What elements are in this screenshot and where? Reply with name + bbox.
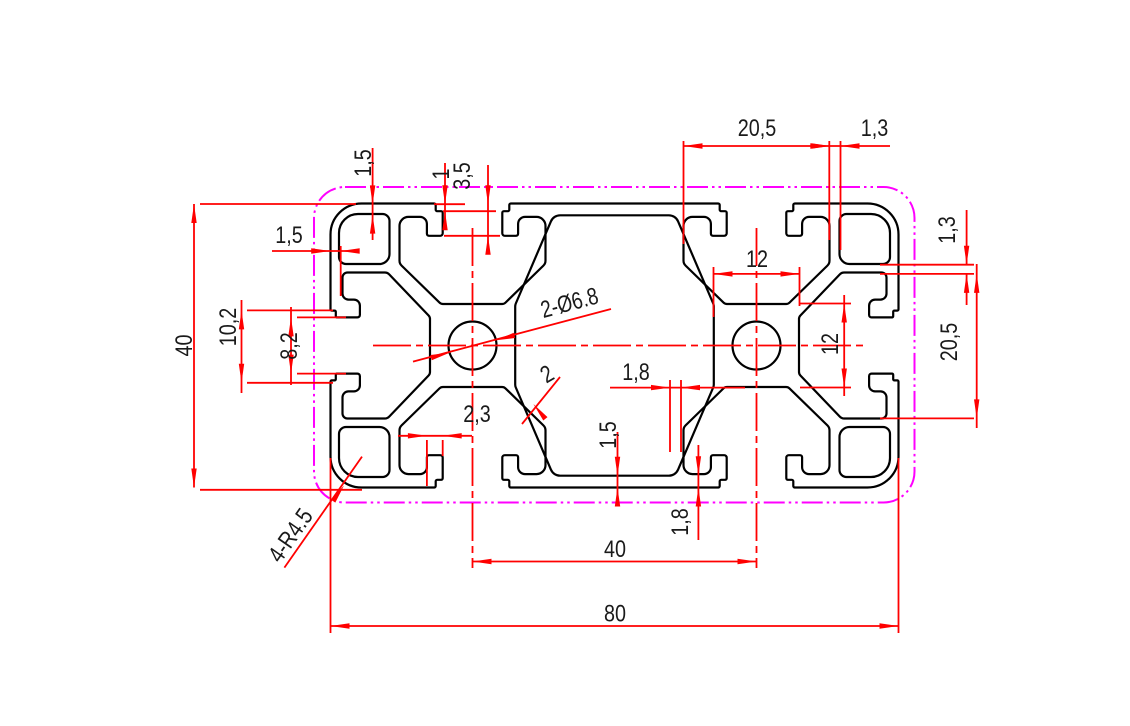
dimension 2.3 lip	[398, 435, 472, 437]
svg-text:40: 40	[604, 536, 626, 563]
vertical centerline right hole	[756, 228, 758, 568]
svg-text:80: 80	[604, 601, 626, 628]
dimension 2-dia 6.8 holes leader	[413, 309, 611, 362]
hole right 6.8	[733, 322, 781, 370]
dimension 1.3 right	[966, 210, 968, 265]
dimension 10.2	[241, 300, 243, 393]
svg-text:1,5: 1,5	[595, 421, 622, 449]
svg-text:10,2: 10,2	[215, 308, 242, 347]
dimension 1.5 bottom wall	[617, 432, 619, 505]
svg-text:20,5: 20,5	[738, 115, 777, 142]
horizontal centerline	[373, 345, 867, 347]
dimension 3.5 lip depth	[487, 165, 489, 252]
profile outer outline with slot cavities	[331, 204, 899, 488]
dimension 80 bottom	[331, 625, 899, 627]
dimension 2 web	[522, 377, 560, 424]
dimension 20.5 top	[684, 145, 891, 147]
hole left 6.8	[449, 322, 497, 370]
svg-text:12: 12	[746, 246, 768, 273]
dimension 4-R4.5 corner radius	[284, 457, 362, 568]
svg-text:1,3: 1,3	[861, 115, 889, 142]
dimension 1.8 upper web	[610, 387, 745, 389]
middle void cavity	[515, 215, 714, 475]
dimension 1.5 left wall	[272, 250, 358, 252]
svg-text:1,8: 1,8	[622, 359, 650, 386]
vertical centerline left hole	[472, 228, 474, 568]
dimension 1.5 top-left	[372, 148, 374, 240]
svg-text:3,5: 3,5	[449, 162, 476, 190]
svg-text:1,5: 1,5	[275, 222, 303, 249]
dimension 40 left	[193, 204, 195, 488]
svg-text:40: 40	[171, 335, 198, 357]
corner box cavity bottom-left	[339, 427, 390, 477]
dimension 40 bottom	[473, 561, 757, 563]
svg-text:1,8: 1,8	[667, 508, 694, 536]
dimension 1.3 top	[840, 141, 842, 250]
svg-text:20,5: 20,5	[936, 323, 963, 362]
corner box cavity top-right	[840, 214, 891, 264]
svg-text:12: 12	[817, 333, 844, 355]
corner box cavity bottom-right	[840, 427, 891, 477]
corner box cavity top-left	[339, 214, 390, 264]
phantom envelope outline R4.5	[314, 187, 915, 503]
dimension 1.8 bottom wall	[697, 445, 699, 540]
dimension 8.2	[290, 307, 292, 385]
svg-text:8,2: 8,2	[276, 332, 303, 360]
dimension 20.5 right	[976, 264, 978, 428]
svg-text:2,3: 2,3	[463, 401, 491, 428]
svg-text:1,5: 1,5	[350, 149, 377, 177]
dimension 12 height	[843, 295, 845, 396]
dimension 1 notch	[444, 163, 446, 230]
svg-text:1,3: 1,3	[934, 216, 961, 244]
dimension 12 width	[714, 273, 800, 275]
